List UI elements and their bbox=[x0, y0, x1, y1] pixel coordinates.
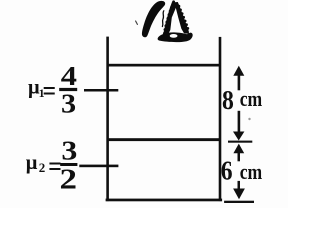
svg-text:3: 3 bbox=[61, 137, 77, 166]
svg-text:6: 6 bbox=[221, 155, 233, 186]
svg-text:2: 2 bbox=[39, 160, 46, 175]
svg-text:3: 3 bbox=[61, 89, 76, 119]
svg-text:μ: μ bbox=[26, 152, 38, 174]
svg-text:4: 4 bbox=[61, 62, 77, 92]
svg-text:=: = bbox=[43, 75, 57, 106]
svg-text:2: 2 bbox=[59, 164, 76, 195]
svg-text:cm: cm bbox=[240, 87, 263, 111]
svg-text:8: 8 bbox=[222, 84, 234, 115]
svg-text:cm: cm bbox=[240, 160, 263, 184]
